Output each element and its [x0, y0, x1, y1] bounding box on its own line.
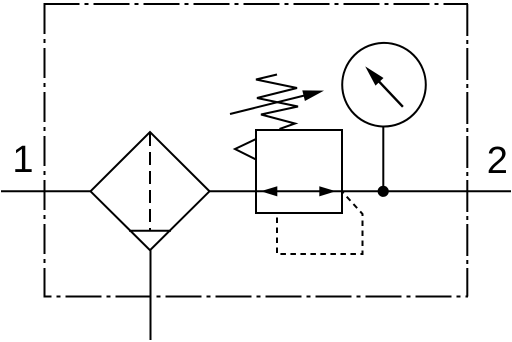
enclosure border left (dash-dot)	[44, 4, 46, 297]
pilot control line (dashed)	[277, 192, 363, 255]
pressure gauge G1 dial	[342, 43, 426, 127]
junction dot	[378, 186, 389, 197]
regulator adjustment arrow shaft	[230, 95, 308, 114]
gauge needle head	[365, 66, 383, 85]
regulator R1 body	[256, 130, 342, 213]
svg-text:1: 1	[12, 139, 33, 181]
gauge needle shaft	[379, 82, 403, 107]
regulator adjustment spring	[256, 75, 298, 130]
regulator flow arrow right	[319, 186, 336, 196]
filter drain separator line	[129, 230, 171, 232]
wire: main line filter outlet through regulator to port 2	[210, 190, 512, 192]
enclosure border bottom (dash-dot)	[44, 296, 469, 298]
wire: condensate drain outlet	[150, 250, 152, 340]
regulator flow arrow left	[261, 186, 278, 196]
filter F1 body (diamond)	[91, 132, 210, 250]
enclosure border right (dash-dot)	[466, 4, 468, 297]
svg-text:2: 2	[487, 140, 508, 182]
filter element (dashed center line)	[149, 133, 151, 230]
wire: main line port 1 to filter inlet	[1, 190, 91, 192]
regulator adjustment arrow head	[302, 90, 324, 101]
regulator relief vent triangle	[235, 139, 256, 160]
wire: gauge stem	[382, 127, 384, 192]
enclosure border top (dash-dot)	[44, 3, 469, 5]
